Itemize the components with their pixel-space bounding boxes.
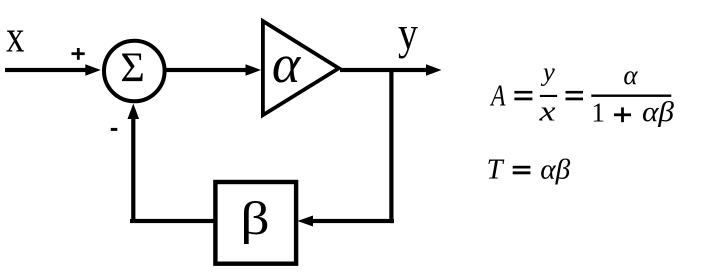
svg-text:x: x [6, 12, 25, 62]
wire input arrow to summer [5, 68, 87, 72]
svg-text:α: α [272, 34, 302, 94]
svg-text:αβ: αβ [540, 154, 570, 185]
wire feedback left run [130, 219, 214, 223]
wire summer to amplifier [166, 68, 248, 72]
equation T = alpha*beta [487, 154, 571, 186]
wire feedback vertical up to summer [131, 117, 135, 223]
op summing junction sigma [104, 41, 165, 102]
wire output arrow [340, 68, 427, 72]
svg-text:β: β [240, 193, 270, 245]
amplifier alpha triangle [263, 21, 339, 115]
svg-text:T: T [487, 154, 505, 186]
svg-text:αβ: αβ [642, 97, 674, 128]
svg-text:y: y [398, 8, 419, 59]
wire feedback vertical drop [389, 68, 393, 223]
equation A = y/x = alpha/(1+alpha*beta) [489, 57, 674, 128]
svg-text:y: y [540, 57, 555, 87]
svg-text:x: x [538, 96, 555, 128]
plus sign at summer input [72, 52, 85, 55]
svg-text:Σ: Σ [120, 46, 144, 92]
wire feedback horizontal into beta box [310, 219, 394, 223]
block beta box [215, 182, 296, 264]
minus sign at summer feedback input [111, 128, 118, 131]
svg-text:A: A [489, 78, 506, 113]
svg-text:α: α [623, 60, 638, 90]
svg-text:1: 1 [591, 98, 605, 128]
